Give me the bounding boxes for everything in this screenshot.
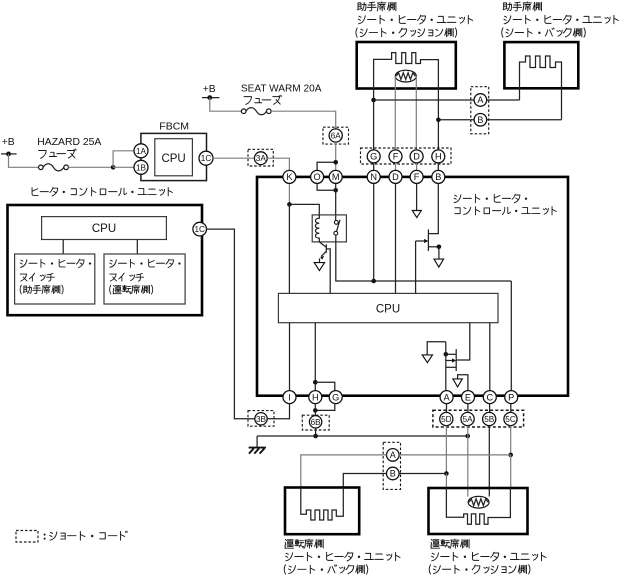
thermistor: [395, 70, 416, 82]
short-connector A/B (driver back): [383, 442, 400, 489]
relay switch: [334, 221, 338, 225]
svg-text:C: C: [486, 392, 493, 402]
wire 3A to K: [267, 158, 289, 170]
driver back unit box: [285, 488, 359, 535]
relay box: [312, 215, 346, 242]
connector K: [283, 170, 296, 183]
connector 1B: [134, 160, 148, 174]
svg-text:5D: 5D: [441, 415, 452, 424]
connector P: [505, 391, 518, 404]
O-M loop bottom: [317, 183, 336, 190]
connector O: [311, 170, 324, 183]
connector N: [367, 170, 380, 183]
wire B left to driver back unit: [343, 474, 386, 488]
thermistor leads to F/D: [394, 76, 396, 150]
short-connector 3A: [248, 149, 273, 166]
svg-text:HAZARD 25A: HAZARD 25A: [37, 137, 101, 148]
wire A to cushion: [374, 99, 475, 101]
connector B: [432, 170, 445, 183]
passenger cushion unit box: [357, 42, 456, 89]
svg-text:F: F: [414, 172, 420, 182]
short-connector row 5D 5A 5B 5C: [433, 410, 524, 427]
heater element: [301, 488, 344, 521]
connector E: [462, 391, 475, 404]
connector M: [329, 170, 342, 183]
svg-text:3B: 3B: [256, 415, 267, 424]
svg-text:O: O: [314, 172, 321, 182]
svg-text:5C: 5C: [505, 415, 516, 424]
svg-text:6A: 6A: [331, 131, 342, 140]
legend: short code: [16, 531, 38, 543]
stubs to N D F B: [373, 163, 375, 171]
O-M loop top: [317, 162, 336, 170]
ground arrow: [412, 211, 421, 218]
seat heater switch (passenger): [15, 254, 95, 304]
driver cushion unit label: [431, 540, 440, 549]
svg-text:M: M: [332, 172, 340, 182]
heater element: [446, 488, 510, 524]
relay output to rail: [336, 235, 512, 281]
svg-text:H: H: [435, 152, 442, 162]
wire cpu-switch1: [62, 240, 64, 255]
svg-text:P: P: [508, 392, 514, 402]
connector 1C: [199, 151, 213, 165]
passenger cushion unit label: [357, 3, 366, 11]
wire to 1B: [113, 166, 134, 168]
wires A/E/C/P to 5D/5A/5B/5C: [446, 404, 448, 413]
I wire: [289, 323, 291, 391]
connector C: [483, 391, 496, 404]
wire A left to driver back unit: [301, 455, 387, 488]
heater element + G/H leads: [374, 53, 439, 150]
svg-text:A: A: [477, 95, 483, 105]
connector F: [410, 170, 423, 183]
B wire to Q2: [428, 183, 438, 233]
svg-text:3A: 3A: [256, 154, 267, 163]
ground arrow: [453, 379, 462, 387]
ground arrow: [314, 263, 324, 271]
svg-text:FBCM: FBCM: [159, 120, 189, 132]
control CPU: [42, 217, 167, 240]
wire B right: [399, 473, 446, 475]
ground rail: [257, 435, 468, 437]
H-G loop bottom, wire to 6B: [315, 403, 335, 410]
heater element: [520, 56, 562, 120]
K wire down: [288, 183, 290, 204]
FBCM box: [141, 133, 207, 180]
wire cpu-switch2: [136, 240, 138, 255]
M wire to relay: [335, 183, 337, 220]
short-connector 6B: [302, 415, 329, 430]
wire to 6A: [271, 111, 336, 129]
svg-text:G: G: [370, 152, 377, 162]
driver cushion unit box: [429, 488, 528, 534]
passenger back unit box: [504, 42, 578, 88]
junction to B: [436, 118, 441, 123]
svg-text:N: N: [370, 172, 377, 182]
wire: [68, 166, 113, 168]
E hook to ground arrow: [458, 375, 468, 391]
wire A right: [399, 454, 511, 456]
svg-text:CPU: CPU: [92, 223, 116, 235]
C wire: [489, 323, 491, 391]
wire 6A to M: [335, 142, 337, 170]
wire 1C to 3A: [213, 157, 254, 159]
svg-text:SEAT WARM 20A: SEAT WARM 20A: [241, 83, 322, 94]
svg-text:CPU: CPU: [161, 153, 185, 165]
connector G: [329, 391, 342, 404]
connector I: [283, 391, 296, 404]
hook to ground arrow: [427, 342, 446, 355]
svg-text:CPU: CPU: [376, 303, 400, 315]
transistor Q2: [427, 229, 429, 251]
wire 5A down to thermistor: [467, 426, 469, 436]
connector row G F D H: [361, 148, 452, 164]
FBCM CPU: [155, 139, 193, 176]
relay coil: [315, 215, 319, 242]
junction to A: [371, 98, 376, 103]
D wire: [395, 183, 397, 293]
junction P rail corner, wire down to P: [510, 281, 512, 391]
svg-text:5A: 5A: [463, 415, 474, 424]
ground arrow: [422, 355, 432, 363]
ground arrow: [434, 259, 444, 267]
heater control unit box: [32, 188, 38, 196]
svg-text:1A: 1A: [136, 147, 147, 156]
wire 5D down (driver cushion heater feed): [445, 426, 447, 474]
connector 1C (control unit): [193, 222, 207, 236]
wire to 1A: [113, 151, 134, 168]
transistor Q3: [455, 349, 457, 371]
svg-text:E: E: [465, 392, 471, 402]
H wire: [314, 323, 316, 391]
wire 1C down to 3B: [207, 229, 256, 419]
svg-text:G: G: [332, 392, 339, 402]
wire B right: [487, 119, 562, 121]
connector 1A: [134, 144, 148, 158]
transistor Q3 drain from CPU: [456, 323, 470, 360]
svg-text:+B: +B: [203, 84, 216, 95]
svg-text:B: B: [435, 172, 441, 182]
svg-text:+B: +B: [2, 137, 15, 148]
svg-text:A: A: [444, 392, 451, 402]
wire 3B to I: [267, 404, 289, 419]
wire 6B to ground rail: [315, 428, 317, 436]
short-connector 6A: [323, 127, 349, 144]
transistor Q1 (relay driver): [319, 242, 326, 247]
H-G loop top: [315, 382, 335, 391]
svg-text:D: D: [413, 152, 420, 162]
passenger back unit label: [503, 3, 512, 11]
seat heater switch (driver): [104, 254, 185, 304]
svg-text:1C: 1C: [194, 225, 205, 234]
svg-text:I: I: [288, 392, 291, 402]
svg-text:B: B: [390, 469, 396, 479]
wire A right: [487, 99, 520, 101]
svg-text:H: H: [312, 392, 319, 402]
svg-text:D: D: [392, 172, 399, 182]
driver back unit label: [285, 540, 294, 549]
wire B to cushion: [438, 119, 474, 121]
N wire: [373, 183, 375, 281]
svg-text:F: F: [393, 152, 399, 162]
wire 5C down: [510, 426, 512, 455]
CPU (control unit): [278, 293, 498, 322]
short-connector A (passenger back): [471, 87, 489, 134]
svg-text:1C: 1C: [201, 154, 212, 163]
connector D: [389, 170, 402, 183]
chassis ground: [256, 436, 258, 448]
svg-text:A: A: [390, 450, 396, 460]
wire K to relay coil: [289, 204, 319, 216]
wire: [210, 98, 242, 112]
thermistor: [468, 496, 489, 508]
F wire to ground arrow: [416, 183, 418, 210]
svg-text:1B: 1B: [136, 163, 147, 172]
svg-text:6B: 6B: [311, 418, 322, 427]
wire 5B down to thermistor: [488, 426, 490, 497]
seat heater control unit box: [257, 177, 568, 396]
connector H: [309, 391, 322, 404]
short-connector 3B: [248, 411, 274, 427]
svg-text:B: B: [477, 115, 483, 125]
svg-text:5B: 5B: [484, 415, 495, 424]
wire: [9, 154, 39, 167]
connector A: [440, 391, 453, 404]
svg-text:K: K: [286, 172, 293, 182]
